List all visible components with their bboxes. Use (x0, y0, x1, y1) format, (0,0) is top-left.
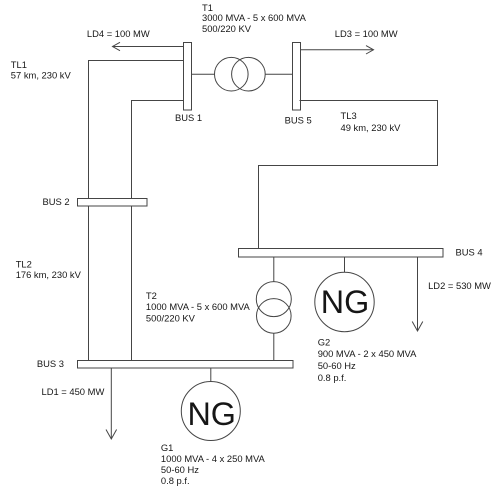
bus BUS 2 (78, 199, 148, 207)
wire BUS1 to T1 (192, 73, 215, 75)
svg-text:TL3: TL3 (341, 110, 357, 121)
wire BUS3 to G1 (210, 368, 212, 382)
generator G1 (181, 382, 240, 441)
svg-text:T2: T2 (146, 290, 157, 301)
wire T2 to BUS3 (273, 333, 275, 360)
svg-text:G1: G1 (161, 442, 174, 453)
transformer T2 (256, 282, 291, 334)
svg-text:LD1 = 450 MW: LD1 = 450 MW (42, 386, 105, 397)
svg-text:BUS 4: BUS 4 (456, 246, 483, 257)
wire TL1 (89, 61, 184, 361)
svg-text:900 MVA - 2 x 450 MVA: 900 MVA - 2 x 450 MVA (318, 348, 417, 359)
wire BUS4 to G2 (344, 257, 346, 272)
svg-text:50-60 Hz: 50-60 Hz (318, 360, 356, 371)
svg-text:BUS 2: BUS 2 (43, 196, 70, 207)
load arrow LD4 (113, 42, 184, 50)
svg-text:0.8 p.f.: 0.8 p.f. (318, 372, 347, 383)
svg-text:NG: NG (321, 284, 370, 320)
bus BUS 5 (293, 43, 301, 111)
svg-text:LD2 = 530 MW: LD2 = 530 MW (428, 280, 491, 291)
svg-text:G2: G2 (318, 336, 331, 347)
svg-text:1000 MVA - 5 x 600 MVA: 1000 MVA - 5 x 600 MVA (146, 301, 251, 312)
svg-text:LD3 = 100 MW: LD3 = 100 MW (335, 28, 398, 39)
svg-text:NG: NG (187, 396, 236, 432)
wire TL2 (132, 101, 184, 361)
wire TL3 (259, 101, 438, 250)
wire T1 to BUS5 (265, 73, 292, 75)
transformer T1 (215, 57, 266, 91)
bus BUS 1 (184, 43, 192, 111)
bus BUS 4 (239, 249, 444, 258)
load arrow LD3 (301, 46, 374, 54)
svg-text:0.8 p.f.: 0.8 p.f. (161, 475, 190, 486)
svg-text:500/220 KV: 500/220 KV (146, 312, 196, 323)
svg-text:BUS 5: BUS 5 (285, 115, 312, 126)
svg-text:3000 MVA - 5 x 600 MVA: 3000 MVA - 5 x 600 MVA (202, 12, 307, 23)
load arrow LD2 (412, 257, 423, 331)
svg-text:BUS 1: BUS 1 (175, 112, 202, 123)
svg-text:BUS 3: BUS 3 (37, 358, 64, 369)
svg-text:LD4 = 100 MW: LD4 = 100 MW (87, 28, 150, 39)
svg-text:50-60 Hz: 50-60 Hz (161, 464, 199, 475)
svg-text:49 km, 230 kV: 49 km, 230 kV (341, 122, 402, 133)
svg-text:500/220 KV: 500/220 KV (202, 23, 252, 34)
bus BUS 3 (78, 361, 294, 369)
svg-text:1000 MVA - 4 x 250 MVA: 1000 MVA - 4 x 250 MVA (161, 453, 266, 464)
load arrow LD1 (106, 368, 117, 439)
svg-text:57 km, 230 kV: 57 km, 230 kV (11, 69, 72, 80)
generator G2 (315, 272, 374, 331)
wire BUS4 to T2 (273, 257, 275, 282)
svg-text:176 km, 230 kV: 176 km, 230 kV (16, 269, 82, 280)
